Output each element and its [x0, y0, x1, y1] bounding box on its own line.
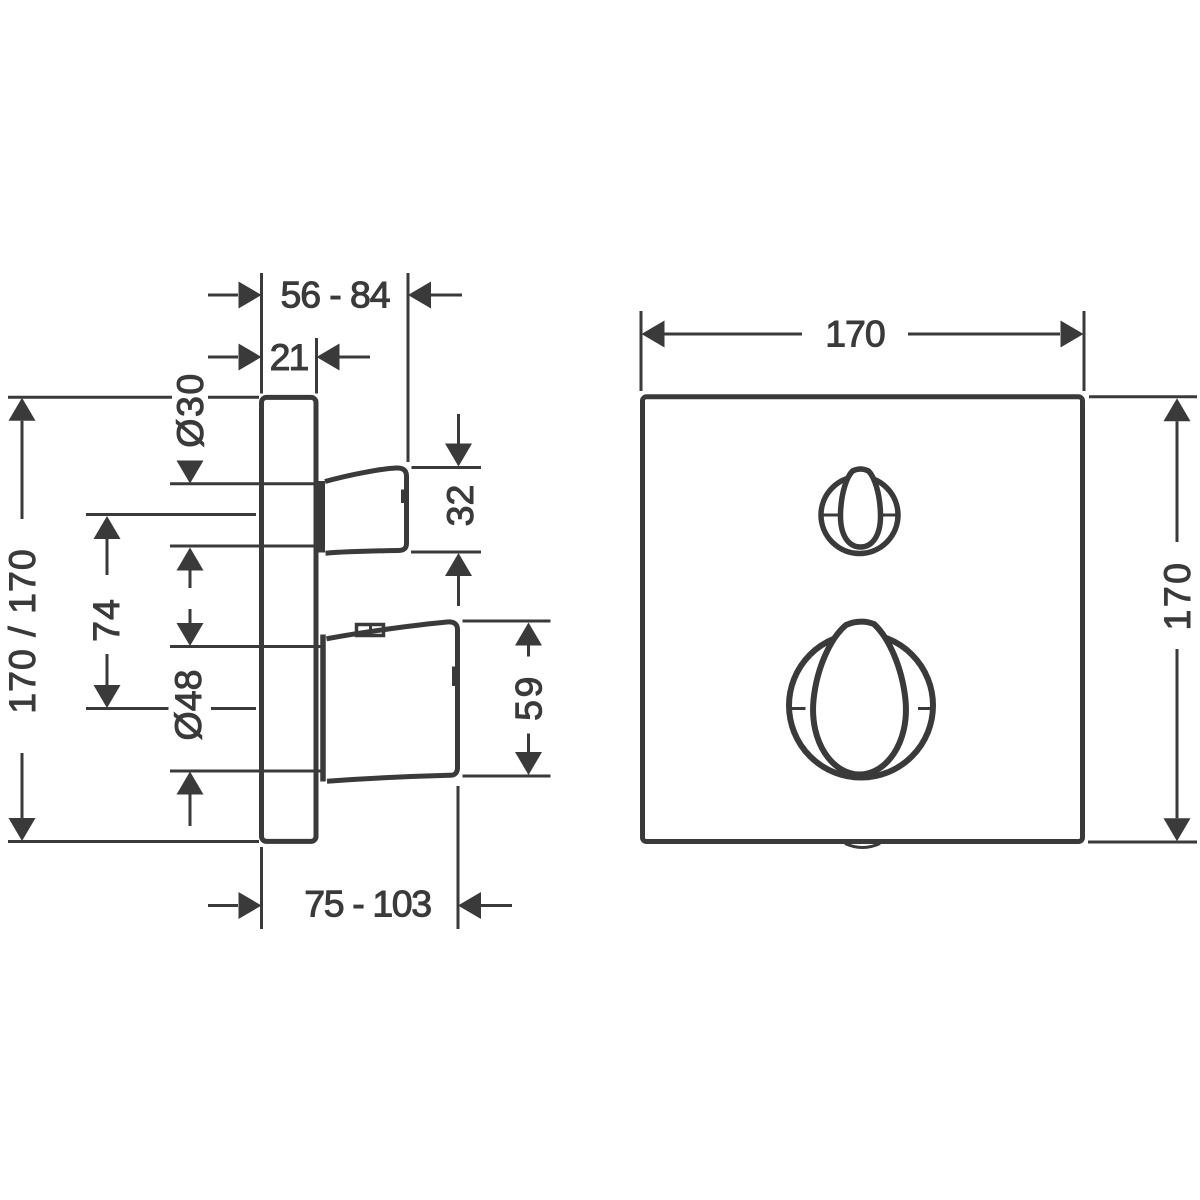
- dimension 59, lower arrow: [515, 734, 542, 776]
- svg-text:32: 32: [439, 485, 481, 527]
- dimension Ø30, upper arrow: [177, 461, 204, 484]
- svg-text:59: 59: [508, 674, 550, 721]
- dimension 170 width, left arrow: [642, 321, 803, 348]
- reference line, bottom of select button: [170, 545, 320, 548]
- dimension 170 height, top extension: [1089, 395, 1197, 398]
- dimension Ø30 (select button dia.), label: [169, 372, 211, 447]
- dimension 56 - 84 (depth range), left arrow: [208, 282, 262, 309]
- select button, front view - outer ring: [821, 477, 898, 554]
- dimension 75 - 103, left extension: [260, 847, 263, 929]
- dimension 170 width, label: [825, 313, 885, 355]
- extension line, plate top to left margin (right part): [208, 396, 259, 399]
- dimension 74, lower arrow: [94, 654, 121, 708]
- dimension 32, extension top: [412, 466, 482, 469]
- svg-text:74: 74: [85, 598, 127, 642]
- thermostat knob side view - top button: [357, 624, 384, 636]
- dimension 59, extension top: [463, 620, 551, 623]
- svg-text:Ø48: Ø48: [167, 670, 209, 741]
- dimension 59, upper arrow: [515, 623, 542, 657]
- escutcheon plate, front view (170x170 square): [643, 397, 1083, 842]
- extension line above plate left edge: [260, 273, 263, 394]
- dimension 32, upper arrow: [445, 414, 472, 467]
- dimension 170 width, right arrow: [908, 321, 1084, 348]
- extension line at select button front face: [407, 273, 410, 462]
- dimension 170 width, left extension: [640, 311, 643, 391]
- dimension 56 - 84, right arrow: [408, 282, 462, 309]
- select button, front view - drop shape: [840, 469, 880, 547]
- dimension 75 - 103, right extension: [457, 786, 460, 929]
- dimension 21, right arrow: [317, 344, 371, 371]
- thermostat knob (bottom handle), side view - base edge: [320, 635, 326, 782]
- dimension 170 height, label: [1156, 560, 1198, 630]
- select button (top handle), side view - body outline: [325, 468, 407, 553]
- dimension 59, extension bottom: [463, 775, 551, 778]
- dimension 32, extension bottom: [411, 551, 481, 554]
- dimension 59, label: [508, 674, 550, 721]
- centre line of thermostat knob (74 bottom), left part: [86, 707, 169, 710]
- dimension 170 / 170 (plate size), upper arrow: [9, 398, 36, 519]
- dimension Ø30, lower arrow: [177, 548, 204, 589]
- dimension Ø48, label: [167, 670, 209, 741]
- svg-text:21: 21: [270, 336, 309, 378]
- svg-text:75 - 103: 75 - 103: [304, 883, 431, 925]
- thermostat knob, front view - right tick: [918, 707, 932, 710]
- dimension 170 height, bottom arrow: [1164, 649, 1191, 841]
- select button, front view - left tick: [823, 514, 842, 517]
- centre line of thermostat knob (74 bottom), right part: [211, 707, 256, 710]
- svg-text:170 / 170: 170 / 170: [1, 548, 43, 713]
- centre line of select button (74 top): [86, 513, 256, 516]
- dimension 32, label: [439, 485, 481, 527]
- thermostat knob, front view - outer ring: [789, 634, 933, 778]
- svg-text:170: 170: [825, 313, 885, 355]
- dimension 170 height, bottom extension: [1088, 841, 1197, 844]
- select button side view - front face inner edge: [401, 490, 404, 504]
- dimension 170 width, right extension: [1083, 311, 1086, 391]
- thermostat knob side view - front face inner edge: [452, 667, 455, 687]
- reference line, top of select button: [170, 482, 320, 485]
- thermostat knob, front view - drop shape: [813, 622, 906, 775]
- dimension 75 - 103, right arrow: [458, 892, 512, 919]
- reference line, top of thermostat knob base: [170, 645, 321, 648]
- reference line, bottom of thermostat knob base: [170, 770, 321, 773]
- drain notch at bottom centre of plate: [845, 844, 880, 848]
- extension line above plate right edge: [315, 338, 318, 394]
- dimension Ø48 (thermostat knob dia.), upper arrow: [177, 609, 204, 646]
- dimension 170 / 170, label: [1, 548, 43, 713]
- svg-text:56 - 84: 56 - 84: [280, 274, 389, 316]
- dimension 75 - 103, left arrow: [208, 892, 262, 919]
- escutcheon wall plate, side view: [262, 397, 317, 841]
- select button, front view - right tick: [880, 514, 899, 517]
- dimension 21 (plate thickness), left arrow: [208, 344, 262, 371]
- dimension 75 - 103, label: [304, 883, 431, 925]
- dimension Ø48, lower arrow: [177, 772, 204, 827]
- svg-text:Ø30: Ø30: [169, 372, 211, 447]
- dimension 21, label: [270, 336, 309, 378]
- extension line, plate bottom to left margin: [8, 840, 259, 843]
- svg-text:170: 170: [1156, 560, 1198, 630]
- dimension 32, lower arrow: [445, 553, 472, 606]
- dimension 56 - 84, label: [280, 274, 389, 316]
- thermostat knob, front view - left tick: [792, 707, 806, 710]
- dimension 74 (handle spacing), upper arrow: [94, 516, 121, 575]
- dimension 170 / 170, lower arrow: [9, 753, 36, 841]
- thermostat knob (bottom handle), side view - body outline: [327, 622, 458, 781]
- select button (top handle), side view - base edge: [318, 481, 325, 553]
- extension line, plate top to left margin (left part): [8, 396, 172, 399]
- dimension 170 height, top arrow: [1164, 398, 1191, 542]
- dimension 74, label: [85, 598, 127, 642]
